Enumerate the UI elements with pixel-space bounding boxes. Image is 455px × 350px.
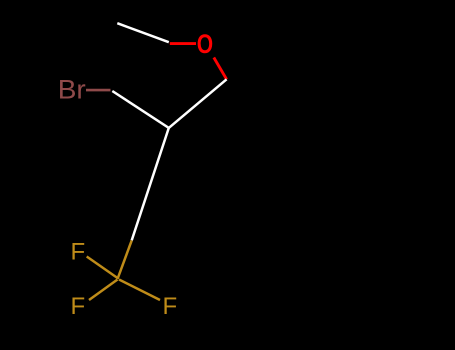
- wire: ethyl CH3-CH2 bond: [117, 23, 169, 42]
- wire: C-CF3 bond gold half: [118, 240, 132, 279]
- wire: C-C bond to O-carbon: [169, 79, 227, 128]
- wire: F2-C bond: [89, 280, 118, 301]
- wire: Br-C bond: [86, 89, 111, 92]
- wire: CH2-O bond: [170, 42, 196, 45]
- svg-text:F: F: [71, 293, 86, 320]
- svg-text:F: F: [71, 239, 86, 266]
- wire: O-C bond: [214, 58, 227, 80]
- wire: C(Br)-C bond: [112, 91, 169, 128]
- svg-text:Br: Br: [58, 74, 86, 104]
- svg-text:F: F: [163, 293, 178, 320]
- wire: C-CF3 bond white half: [132, 128, 169, 240]
- svg-text:O: O: [197, 30, 213, 60]
- wire: F3-C bond: [119, 280, 160, 301]
- wire: F1-C bond: [87, 257, 118, 279]
